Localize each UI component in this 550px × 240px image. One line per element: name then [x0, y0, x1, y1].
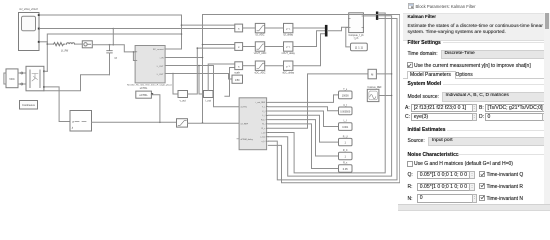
wire [1 1 1] into f_ph lower input [346, 28, 351, 47]
wire demux out 1 / right bus 1 [268, 13, 385, 173]
svg-text:C_f: C_f [262, 111, 266, 113]
svg-text:R_Lf: R_Lf [261, 119, 266, 121]
svg-text:Compute_f_ph: Compute_f_ph [348, 34, 364, 37]
description band [403, 13, 550, 41]
Model source row [408, 94, 439, 100]
svg-text:scale: scale [234, 72, 240, 75]
scope Scope [19, 7, 40, 50]
N row [408, 196, 413, 202]
goto v_out tag [178, 91, 188, 103]
delay block row2 [282, 42, 296, 55]
wire demux out 2 / right bus 2 [268, 16, 391, 176]
wire chopper out1 stub [44, 70, 47, 72]
display block [368, 69, 376, 79]
subsystem f_ph [348, 13, 364, 40]
source Cosinus_REF [367, 87, 382, 102]
svg-text:i_out: i_out [205, 100, 211, 103]
powergui Continuous [20, 101, 38, 110]
wire cosinus to bus [379, 95, 392, 97]
C / D row [405, 114, 410, 120]
wire mux1 out to f_ph [328, 27, 349, 30]
svg-text:uCTRL: uCTRL [139, 93, 148, 97]
svg-text:[1 1 1]: [1 1 1] [355, 46, 363, 50]
svg-text:M: M [371, 73, 373, 77]
resistor Rf zigzag [54, 43, 65, 46]
wire rectifier out2 to long vertical x=202 [165, 57, 202, 59]
svg-text:L_f: L_f [262, 115, 265, 117]
wire rectifier RC_current out [165, 48, 181, 50]
Noise Characteristics [408, 152, 459, 158]
wire display to bus [376, 73, 391, 75]
wire controller p3 to constant L_f [268, 111, 338, 127]
wire i_out tap up to product row3 [199, 66, 204, 95]
svg-text:i_out_REF: i_out_REF [255, 101, 266, 104]
saturation block row3 [254, 61, 265, 74]
controller subsystem [239, 98, 268, 150]
svg-text:uCTRL: uCTRL [241, 107, 248, 109]
wire product row1 input a [182, 24, 235, 26]
constant R_C [339, 150, 353, 160]
svg-text:T_s: T_s [262, 107, 265, 109]
Time domain row [408, 51, 438, 57]
wire row1 delay-mux [293, 27, 325, 29]
svg-text:0.001: 0.001 [342, 126, 349, 129]
wire chopper out2 to PWM input [44, 87, 70, 122]
svg-text:f_ph: f_ph [353, 38, 359, 40]
wire controller p6 to constant R_s [268, 124, 338, 169]
wire VDC to chopper (+) [18, 72, 26, 74]
bottom bar [398, 204, 550, 211]
controller left port stub [237, 138, 239, 140]
svg-text:x_hat: x_hat [260, 136, 265, 139]
wire measurement to rectifier [92, 45, 135, 52]
svg-text:1/50: 1/50 [235, 79, 240, 82]
svg-text:R_s: R_s [262, 128, 266, 130]
wire v_out tap up to product row2 [188, 48, 235, 94]
wire VDC to chopper (-) [18, 83, 26, 85]
wire row2 sat-delay [265, 46, 284, 48]
svg-text:iLf_vOut_vOutf: iLf_vOut_vOutf [20, 7, 38, 11]
svg-text:L_OUT: L_OUT [157, 74, 164, 76]
wire product row3 input b [225, 68, 235, 97]
wire vertical from chopper out1 up to RL node [46, 42, 48, 72]
Source row [408, 138, 425, 144]
svg-text:RC_current: RC_current [153, 48, 164, 51]
svg-text:z⁻¹: z⁻¹ [286, 64, 290, 68]
wire saturation to controller [188, 122, 240, 124]
wire row1 product-sat [243, 27, 256, 29]
svg-text:R_i: R_i [262, 124, 266, 126]
svg-text:i_ref: i_ref [261, 131, 266, 134]
wire PWM out to saturation [92, 121, 177, 123]
product block row2 [235, 43, 243, 51]
Q row [408, 172, 413, 178]
junction on x=181 [181, 33, 183, 35]
svg-text:Cosinus_REF: Cosinus_REF [367, 87, 382, 89]
product block row1 [235, 24, 243, 32]
svg-text:vDC_delay: vDC_delay [282, 71, 294, 74]
wire scope input 1 from rectifier RC_current [40, 15, 182, 49]
svg-text:u_Lf: u_Lf [261, 141, 265, 143]
tabs [403, 78, 550, 79]
wire row3 delay-mux [293, 34, 325, 66]
wire row2 delay-mux [293, 31, 325, 47]
checkbox: use current measurement [407, 62, 413, 68]
svg-text:0.05: 0.05 [343, 168, 348, 171]
svg-text:vOUT_delay: vOUT_delay [282, 52, 296, 55]
wire row3 product-sat [243, 65, 256, 67]
wire product row2 input a [203, 44, 235, 46]
svg-text:Lf_Rtf: Lf_Rtf [61, 49, 68, 53]
wire capacitor return path [44, 75, 110, 91]
scale source block [232, 72, 243, 84]
svg-text:iLf_delay: iLf_delay [283, 34, 293, 37]
A / B row [405, 105, 410, 111]
wire scope input 3 [40, 41, 48, 43]
svg-text:iLf_ADC: iLf_ADC [256, 34, 265, 37]
demux [376, 12, 378, 20]
product block row3 [235, 62, 243, 70]
svg-text:uCTRL: uCTRL [140, 87, 148, 90]
wire row2 product-sat [243, 46, 256, 48]
constant L_f [339, 121, 353, 131]
current measurement block [82, 41, 92, 48]
saturation block before controller [177, 119, 188, 127]
checkbox G and H [407, 161, 413, 167]
source VDC [4, 69, 18, 88]
svg-text:i_IN: i_IN [159, 58, 164, 60]
right scrollbar [544, 13, 550, 204]
constant [1 1 1] [351, 43, 368, 51]
svg-text:vOUT_ADC: vOUT_ADC [254, 52, 267, 55]
wire controller p5 to constant R_C [268, 120, 338, 156]
Initial Estimates [408, 127, 446, 133]
wire into resistor [47, 43, 53, 45]
wire row1 sat-delay [265, 27, 284, 29]
constant C_f [339, 105, 353, 115]
delay block row1 [283, 23, 293, 36]
inductor Lf coil [67, 43, 75, 44]
svg-text:Rectifier_RC_500_Ohm_500_uF_si: Rectifier_RC_500_Ohm_500_uF_single_phase [127, 84, 173, 87]
constant R_s [339, 163, 353, 173]
wire f_ph out to demux [363, 15, 376, 17]
goto i_out tag [204, 91, 214, 103]
svg-text:VDC: VDC [9, 77, 15, 81]
wire controller p1 to constant T_s [268, 95, 338, 103]
wire vertical tap down to LC node [112, 29, 114, 45]
wire uCTRL tag down to PWM line [151, 95, 160, 123]
rectifier subsystem [127, 46, 173, 87]
long vertical node x=202 (loop from y=14 to v_out line) [202, 15, 204, 123]
wire controller p2 to constant C_f [268, 107, 338, 111]
constant R_Lf [339, 136, 353, 145]
svg-text:10000: 10000 [342, 94, 350, 97]
svg-text:Cf: Cf [115, 57, 118, 60]
title bar [408, 3, 414, 9]
svg-text:iLf_REF: iLf_REF [241, 123, 249, 125]
saturation block row2 [254, 42, 267, 55]
delay block row3 [282, 61, 294, 74]
wire upper bus into RL node [47, 34, 181, 44]
constant T_s [339, 89, 353, 99]
saturation block row1 [255, 23, 264, 36]
svg-text:z⁻¹: z⁻¹ [286, 27, 290, 31]
wire demux out 3 / right bus 3 [268, 19, 397, 180]
svg-text:Continuous: Continuous [22, 104, 35, 107]
canvas/dialog separator strip [403, 0, 404, 212]
transistor chopper block [26, 66, 45, 91]
svg-text:xPWM_delay: xPWM_delay [241, 139, 254, 141]
svg-text:z⁻¹: z⁻¹ [286, 45, 290, 49]
R row [408, 184, 413, 190]
wire scope input 2 long bus to product row1 [40, 28, 235, 30]
junction node at x=112.8 [113, 28, 115, 30]
capacitor Cf [109, 45, 111, 51]
wire controller p4 to constant R_Lf [268, 115, 338, 142]
wire rectifier out4 to v_out tag [165, 74, 232, 80]
svg-text:vDC_ADC: vDC_ADC [254, 71, 265, 74]
wire rectifier out3 to controller input 1 [165, 66, 239, 107]
mux1 [325, 25, 328, 37]
PWM generator block [70, 111, 92, 132]
Filter Settings [408, 40, 441, 46]
wire controller p7 to display [268, 74, 368, 128]
svg-text:L_OUT: L_OUT [157, 66, 164, 68]
System Model [408, 81, 442, 87]
svg-text:0.000500: 0.000500 [340, 110, 351, 113]
wire outer loop from y=14 [203, 15, 400, 183]
goto uCTRL tag [136, 87, 152, 98]
wire rectifier second input [133, 52, 135, 61]
wire row3 sat-delay [265, 65, 284, 67]
svg-text:v_out: v_out [180, 100, 186, 103]
